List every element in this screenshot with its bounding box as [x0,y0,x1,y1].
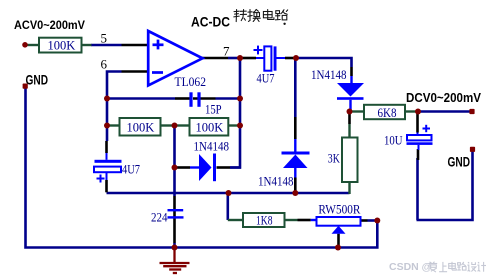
svg-text:DCV0~200mV: DCV0~200mV [406,91,482,105]
svg-text:6: 6 [101,57,108,72]
svg-text:3K: 3K [328,152,340,166]
svg-text:100K: 100K [127,121,155,135]
svg-text:15P: 15P [205,103,222,117]
svg-text:224: 224 [151,210,168,224]
svg-text:10U: 10U [384,134,403,148]
svg-text:1N4148: 1N4148 [311,68,347,82]
svg-text:6K8: 6K8 [378,106,397,120]
svg-text:100K: 100K [48,39,76,53]
svg-text:CSDN @: CSDN @ [389,261,432,273]
svg-text:1K8: 1K8 [256,214,273,228]
svg-text:TL062: TL062 [175,75,207,89]
svg-text:4U7: 4U7 [122,162,140,176]
svg-text:ACV0~200mV: ACV0~200mV [14,20,85,32]
svg-text:1N4148: 1N4148 [194,139,230,153]
svg-text:GND: GND [448,155,471,170]
svg-text:100K: 100K [196,121,224,135]
svg-text:1N4148: 1N4148 [258,175,294,189]
svg-text:4U7: 4U7 [257,71,275,85]
svg-text:GND: GND [26,73,49,88]
svg-text:5: 5 [101,31,108,46]
svg-text:RW500R: RW500R [318,203,361,217]
svg-text:7: 7 [223,44,230,59]
svg-text:AC-DC: AC-DC [191,14,230,30]
